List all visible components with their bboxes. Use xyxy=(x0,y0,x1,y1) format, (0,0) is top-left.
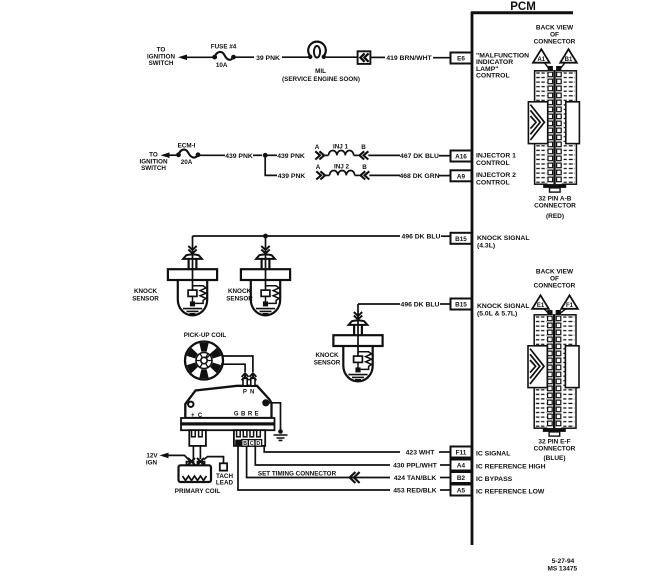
wire C pin to A4 (430 PPL/WHT) xyxy=(255,446,390,465)
wire B1 triangle to connector xyxy=(559,63,565,71)
label BACK VIEW OF CONNECTOR (E-F) xyxy=(534,269,576,290)
svg-text:A5: A5 xyxy=(457,488,466,495)
wire F1 triangle to connector xyxy=(558,309,566,315)
svg-text:439 PNK: 439 PNK xyxy=(225,153,253,160)
knock sensor 1 xyxy=(168,246,217,316)
svg-text:SWITCH: SWITCH xyxy=(141,165,166,172)
svg-text:468 DK GRN: 468 DK GRN xyxy=(399,173,439,180)
label 424 TAN/BLK xyxy=(394,475,437,482)
wire to pin B15 (5.0L) xyxy=(440,303,451,305)
svg-text:CONTROL: CONTROL xyxy=(476,179,510,186)
svg-text:B: B xyxy=(362,164,367,171)
svg-text:KNOCK: KNOCK xyxy=(228,288,252,295)
label KNOCK SIGNAL 5.0L 5.7L xyxy=(477,303,530,318)
right connector block ABCD xyxy=(234,430,265,446)
label SET TIMING CONNECTOR xyxy=(258,470,337,477)
svg-text:496 DK BLU: 496 DK BLU xyxy=(402,234,441,241)
svg-text:A: A xyxy=(316,164,321,171)
svg-text:SWITCH: SWITCH xyxy=(149,60,174,67)
svg-text:423 WHT: 423 WHT xyxy=(406,450,436,457)
wire lamp to connector symbol xyxy=(326,56,358,58)
svg-text:MIL: MIL xyxy=(315,68,326,75)
pin B15 (4.3L) xyxy=(451,233,472,244)
label TACH LEAD xyxy=(216,473,234,487)
svg-text:SENSOR: SENSOR xyxy=(314,360,341,367)
svg-text:KNOCK: KNOCK xyxy=(315,352,339,359)
wire drop to knock sensor 3 xyxy=(357,304,359,312)
pin label D xyxy=(255,440,262,447)
pin marker triangle B1 xyxy=(560,49,577,63)
svg-text:439 PNK: 439 PNK xyxy=(277,153,305,160)
chevron plug P xyxy=(242,373,249,380)
junction node 439 PNK xyxy=(263,153,268,158)
svg-text:A16: A16 xyxy=(455,154,467,161)
svg-text:(RED): (RED) xyxy=(546,213,564,220)
svg-text:B2: B2 xyxy=(457,475,466,482)
label knock sensor 1 xyxy=(132,288,159,302)
label BACK VIEW OF CONNECTOR (A-B) xyxy=(534,25,576,46)
connector 32 pin A-B xyxy=(528,66,579,192)
svg-text:C: C xyxy=(250,441,254,447)
module mount hole xyxy=(188,402,193,407)
label knock sensor 2 xyxy=(226,288,253,302)
wire pick-up coil to pin P xyxy=(221,364,245,372)
svg-text:BACK VIEW: BACK VIEW xyxy=(536,25,574,32)
svg-text:CONNECTOR: CONNECTOR xyxy=(534,203,576,210)
label 32 PIN E-F CONNECTOR (BLUE) xyxy=(534,439,576,462)
pin label C xyxy=(248,440,255,447)
svg-text:KNOCK: KNOCK xyxy=(134,288,158,295)
wire 419 BRN/WHT to pin E6 xyxy=(433,57,451,59)
svg-text:A4: A4 xyxy=(457,463,466,470)
svg-text:D: D xyxy=(256,441,260,447)
wire splice to tach lead xyxy=(204,457,224,464)
svg-text:PRIMARY COIL: PRIMARY COIL xyxy=(175,488,221,495)
wire B pin to B2 (424 TAN/BLK) xyxy=(247,446,390,478)
wire connector to 419 BRN/WHT xyxy=(370,56,385,58)
svg-text:F1: F1 xyxy=(566,303,574,309)
pin F11 xyxy=(451,447,472,458)
wire inj2 to label xyxy=(369,174,400,176)
label IC BYPASS xyxy=(476,476,513,483)
svg-text:BACK VIEW: BACK VIEW xyxy=(536,269,574,276)
svg-text:(SERVICE ENGINE SOON): (SERVICE ENGINE SOON) xyxy=(282,76,360,83)
svg-text:430 PPL/WHT: 430 PPL/WHT xyxy=(393,463,438,470)
svg-text:INJ 2: INJ 2 xyxy=(334,163,350,170)
svg-text:B15: B15 xyxy=(455,236,467,243)
injector 1 connector B chevron xyxy=(360,144,369,159)
svg-text:419 BRN/WHT: 419 BRN/WHT xyxy=(386,55,432,62)
svg-text:KNOCK SIGNAL: KNOCK SIGNAL xyxy=(477,235,530,242)
pin A4 xyxy=(451,460,472,471)
wire drop to knock sensor 2 xyxy=(265,236,267,246)
svg-text:B: B xyxy=(361,144,366,151)
svg-text:496 DK BLU: 496 DK BLU xyxy=(401,302,440,309)
label 496 DK BLU (5.0L) xyxy=(401,302,440,309)
date stamp xyxy=(547,558,577,572)
label PICK-UP COIL xyxy=(184,332,227,339)
pin B15 (5.0L) xyxy=(451,299,472,310)
wire drop to knock sensor 1 xyxy=(192,236,194,246)
ground (module) xyxy=(274,429,288,440)
svg-text:467 DK BLU: 467 DK BLU xyxy=(400,153,439,160)
pin label B xyxy=(242,440,249,447)
svg-text:B1: B1 xyxy=(565,57,573,63)
primary coil body xyxy=(179,462,212,482)
label 430 PPL/WHT xyxy=(393,463,438,470)
svg-text:B15: B15 xyxy=(455,302,467,309)
arrow to ignition switch xyxy=(178,55,187,61)
wire module pin to splice X2 xyxy=(199,446,201,459)
wire pick-up coil to pin N xyxy=(222,356,253,372)
svg-text:10A: 10A xyxy=(216,62,228,69)
wire arrow to fuse ECM-I xyxy=(168,154,178,156)
wire junction right xyxy=(265,154,277,156)
label 423 WHT xyxy=(406,450,436,457)
ignition module body xyxy=(185,386,271,418)
label 453 RED/BLK xyxy=(393,488,437,495)
wire module dot to ground xyxy=(266,403,281,432)
label 39 PNK xyxy=(256,55,280,62)
svg-text:CONTROL: CONTROL xyxy=(476,160,510,167)
wire 496 DK BLU to pin B15 xyxy=(441,235,451,237)
svg-text:OF: OF xyxy=(550,276,559,283)
svg-text:32 PIN A-B: 32 PIN A-B xyxy=(539,195,572,202)
chevron plug N xyxy=(249,373,256,380)
svg-text:E1: E1 xyxy=(537,303,545,309)
wire 39 PNK to lamp xyxy=(282,56,309,58)
wire module pin to splice X1 xyxy=(192,446,194,459)
label 12V IGN xyxy=(146,453,158,467)
label INJECTOR 1 CONTROL xyxy=(476,153,516,167)
svg-text:IGN: IGN xyxy=(146,459,158,466)
left connector block on module xyxy=(189,430,206,446)
module pin P xyxy=(243,378,247,385)
wire arrow to fuse xyxy=(185,56,214,58)
module mounting plate lower xyxy=(181,425,275,431)
PCM top boundary line xyxy=(471,11,573,14)
svg-text:IC REFERENCE LOW: IC REFERENCE LOW xyxy=(476,488,545,495)
pin marker triangle F1 xyxy=(561,295,578,309)
fuse FUSE #4 10A xyxy=(211,44,237,69)
svg-text:(4.3L): (4.3L) xyxy=(477,243,495,250)
PCM left boundary line xyxy=(471,12,474,545)
wire junction drop to row 2 xyxy=(265,155,277,175)
svg-text:IC REFERENCE HIGH: IC REFERENCE HIGH xyxy=(476,463,546,470)
pin marker triangle A1 xyxy=(533,49,550,63)
svg-text:CONTROL: CONTROL xyxy=(476,73,510,80)
svg-text:SET TIMING CONNECTOR: SET TIMING CONNECTOR xyxy=(258,470,337,477)
svg-text:SENSOR: SENSOR xyxy=(132,295,159,302)
label 32 PIN A-B CONNECTOR (RED) xyxy=(534,195,576,220)
svg-text:F11: F11 xyxy=(456,450,467,457)
label 419 BRN/WHT xyxy=(386,55,432,62)
svg-text:LEAD: LEAD xyxy=(216,480,234,487)
wire fuse to 439 PNK xyxy=(200,154,225,156)
svg-text:32 PIN E-F: 32 PIN E-F xyxy=(538,439,570,446)
svg-text:CONNECTOR: CONNECTOR xyxy=(534,283,576,290)
knock sensor 3 xyxy=(333,312,382,382)
node: TO IGNITION SWITCH (injector row) xyxy=(140,152,168,173)
svg-text:439 PNK: 439 PNK xyxy=(278,173,306,180)
pin A5 xyxy=(451,485,472,496)
label KNOCK SIGNAL 4.3L xyxy=(477,235,530,250)
pin E6 xyxy=(451,53,472,64)
arrow 12V IGN xyxy=(160,453,169,459)
module mounting plate upper xyxy=(181,418,275,423)
knock sensor 2 xyxy=(241,246,290,316)
svg-text:MS 13475: MS 13475 xyxy=(547,566,577,573)
label MALFUNCTION INDICATOR LAMP CONTROL xyxy=(476,52,529,79)
splice X1 xyxy=(188,458,195,465)
svg-text:SENSOR: SENSOR xyxy=(226,295,253,302)
svg-text:IC BYPASS: IC BYPASS xyxy=(476,476,513,483)
wire 423 WHT to pin F11 xyxy=(439,451,451,453)
label 439 PNK (inj 1) xyxy=(277,153,305,160)
wire knock sensor 3 row xyxy=(358,303,400,305)
pin B2 xyxy=(451,472,472,483)
svg-text:IC SIGNAL: IC SIGNAL xyxy=(476,450,510,457)
label 439 PNK (inj 2) xyxy=(278,173,306,180)
wire knock bus (4.3L) xyxy=(193,235,401,237)
injector 2 connector B chevron xyxy=(361,164,370,179)
splice X2 xyxy=(197,458,204,465)
svg-text:CONNECTOR: CONNECTOR xyxy=(534,446,576,453)
wire 453 RED/BLK to pin A5 xyxy=(440,489,451,491)
label 467 DK BLU xyxy=(400,153,439,160)
svg-text:INJECTOR 2: INJECTOR 2 xyxy=(476,172,516,179)
label 468 DK GRN xyxy=(399,173,439,180)
wire 467 DK BLU to pin A16 xyxy=(439,155,451,157)
lamp MIL (service engine soon) xyxy=(282,42,360,83)
label 439 PNK (main) xyxy=(225,153,253,160)
module terminal dot xyxy=(262,399,269,406)
wire to junction xyxy=(253,154,262,156)
svg-text:KNOCK SIGNAL: KNOCK SIGNAL xyxy=(477,303,530,310)
wire 424 TAN/BLK to pin B2 xyxy=(440,477,451,479)
svg-text:(5.0L & 5.7L): (5.0L & 5.7L) xyxy=(477,311,517,318)
pin marker triangle E1 xyxy=(532,295,549,309)
svg-text:INJ 1: INJ 1 xyxy=(333,143,349,150)
tach lead terminal xyxy=(220,463,227,470)
svg-text:453 RED/BLK: 453 RED/BLK xyxy=(393,488,437,495)
connector 32 pin E-F xyxy=(528,310,579,436)
pin A9 xyxy=(451,170,472,181)
svg-text:5-27-94: 5-27-94 xyxy=(552,558,575,565)
pin label A (inverted) xyxy=(235,440,242,447)
wire E1 triangle to connector xyxy=(544,309,550,315)
svg-text:PICK-UP COIL: PICK-UP COIL xyxy=(184,332,227,339)
injector 1 coil INJ 1 xyxy=(325,143,359,155)
wire 430 PPL/WHT to pin A4 xyxy=(440,464,451,466)
svg-text:20A: 20A xyxy=(181,159,193,166)
svg-text:(BLUE): (BLUE) xyxy=(543,455,565,462)
injector 2 coil INJ 2 xyxy=(326,163,360,175)
label G B R E xyxy=(234,412,259,418)
wire 468 DK GRN to pin A9 xyxy=(439,175,451,177)
label + C xyxy=(191,413,203,419)
set timing connector chevron xyxy=(350,472,360,483)
svg-text:A1: A1 xyxy=(537,57,545,63)
svg-text:A9: A9 xyxy=(457,173,466,180)
svg-text:P N: P N xyxy=(243,390,255,396)
wire 12V to splice xyxy=(167,455,191,461)
svg-text:OF: OF xyxy=(550,32,559,39)
wire A pin to A5 (453 RED/BLK) xyxy=(238,446,390,490)
svg-text:424 TAN/BLK: 424 TAN/BLK xyxy=(394,475,437,482)
label 496 DK BLU (4.3L) xyxy=(402,234,441,241)
label P N xyxy=(243,390,255,396)
label PRIMARY COIL xyxy=(175,488,221,495)
label knock sensor 3 xyxy=(314,352,341,366)
junction node knock bus xyxy=(263,234,268,239)
node: TO IGNITION SWITCH (MIL row) xyxy=(147,47,175,68)
pick-up coil reluctor wheel xyxy=(185,342,223,380)
svg-text:E6: E6 xyxy=(457,56,465,63)
wire D pin to F11 (423 WHT) xyxy=(264,446,400,452)
label IC REFERENCE HIGH xyxy=(476,463,546,470)
module pin N xyxy=(251,378,255,385)
wire fuse to 39 PNK xyxy=(236,56,255,58)
wire A1 triangle to connector xyxy=(545,63,551,71)
label IC REFERENCE LOW xyxy=(476,488,545,495)
svg-text:39 PNK: 39 PNK xyxy=(256,55,280,62)
svg-text:FUSE #4: FUSE #4 xyxy=(211,44,237,51)
svg-text:ECM-I: ECM-I xyxy=(178,142,196,149)
svg-text:INJECTOR 1: INJECTOR 1 xyxy=(476,153,516,160)
svg-text:CONNECTOR: CONNECTOR xyxy=(534,39,576,46)
svg-text:A: A xyxy=(315,144,320,151)
label INJECTOR 2 CONTROL xyxy=(476,172,516,186)
PCM label xyxy=(510,1,536,13)
injector 2 connector A chevron xyxy=(316,164,325,179)
injector 1 connector A chevron xyxy=(315,144,324,159)
fuse ECM-I 20A xyxy=(176,142,200,165)
label IC SIGNAL xyxy=(476,450,510,457)
svg-text:G B R E: G B R E xyxy=(234,412,259,418)
wire inj1 to label xyxy=(368,154,400,156)
pin A16 xyxy=(451,151,472,162)
inline connector symbol (double chevron box) xyxy=(358,51,371,64)
arrow to ignition switch 2 xyxy=(161,152,170,158)
